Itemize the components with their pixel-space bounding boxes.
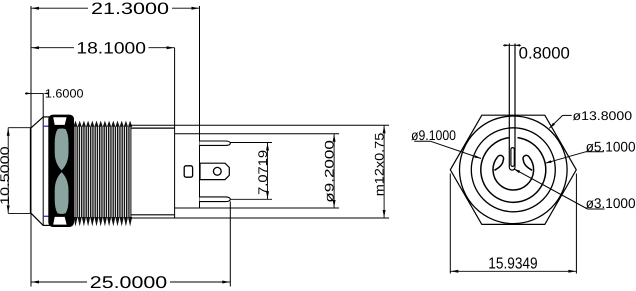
housing side slot [184,166,192,177]
svg-text:ø5.1000: ø5.1000 [586,138,636,154]
extension tick 10.5 bottom [8,212,30,214]
svg-text:ø13.8000: ø13.8000 [573,109,633,123]
rear housing top edge / dia9.2 extension [175,133,340,135]
dimension 7.0719 line [267,143,269,200]
dimension m12x0.75 line [383,125,385,218]
head flange front face edge [30,128,32,214]
power bar slot left line / 0.8 extension [508,44,510,168]
hex nut outline [450,115,576,224]
bezel cap outer black body [48,115,74,227]
cap bottom white notch [53,217,66,225]
dimension 25.0000 line [31,281,87,283]
leader dia9.1000 [414,140,431,142]
svg-text:0.8000: 0.8000 [519,45,570,63]
extension tick 10.5 top [8,127,30,129]
thread crest teeth top [73,121,132,127]
dimension 1.6000 line [25,92,43,94]
outer circle dia13.8 [460,116,568,224]
power symbol outer arc [481,138,546,203]
cap top white notch [53,117,66,125]
svg-text:10.5000: 10.5000 [0,146,12,205]
svg-text:21.3000: 21.3000 [91,0,169,18]
body top edge [131,127,175,129]
lens lower (teal) [55,172,69,214]
svg-text:25.0000: 25.0000 [90,273,167,291]
svg-text:7.0719: 7.0719 [256,150,270,195]
svg-text:ø3.1000: ø3.1000 [586,195,636,211]
dimension dia9.2000 line [333,134,335,208]
body bottom edge [131,214,175,216]
svg-text:15.9349: 15.9349 [488,255,537,272]
dimension 18.1000 line [31,47,74,49]
head chamfer top [31,117,43,128]
extension line 15.9349 right [575,174,577,274]
head chamfer bottom [31,213,43,225]
rear housing bottom edge / dia9.2 extension [175,207,340,209]
hidden line blue top [43,125,49,127]
thread shank lines [74,127,131,218]
svg-text:18.1000: 18.1000 [76,40,146,58]
svg-text:ø9.1000: ø9.1000 [411,127,456,143]
power symbol left end hook [494,155,503,170]
svg-text:m12x0.75: m12x0.75 [372,133,386,197]
flange bottom edge [43,224,49,226]
svg-text:ø9.2000: ø9.2000 [322,140,336,203]
terminal pin top [200,141,231,145]
svg-text:1.6000: 1.6000 [45,87,84,101]
middle circle dia9.1 [471,128,555,212]
thread major dia line top / m12 extension [131,124,389,126]
power symbol inner arc [493,157,534,190]
head flange rear edge [42,93,44,225]
extension line 7.0719 top [231,142,273,144]
thread crest teeth bottom [73,217,132,226]
leader dia13.8000 [549,115,562,128]
flange top edge [43,116,49,118]
leader dia3.1000 [514,169,588,209]
dimension 0.8000 line [503,44,521,46]
tab hole [213,167,221,175]
terminal pin bottom [200,197,231,202]
extension line: head front face plane (x=31) [30,6,32,287]
dimension 10.5000 line [7,128,9,214]
thread end boundary [130,125,132,218]
rear housing rear face / 21.3 extension line [199,6,201,208]
power bar inner outline [511,148,514,167]
extension line 25 right (pin tip) [229,202,231,287]
dimension 21.3000 line [31,7,88,9]
power symbol right end hook [523,155,532,170]
thread major dia line bottom / m12 extension [131,217,389,219]
hidden line blue bottom [43,215,49,217]
dimension 15.9349 line [450,270,576,272]
power bar slot right line / 0.8 extension [514,44,516,168]
lens upper (teal) [55,129,69,171]
power bar slot bottom cap [509,167,515,170]
leader dia5.1000 [545,152,586,164]
terminal tab middle with hole [200,163,229,179]
extension line 7.0719 bottom [231,198,273,200]
body step edge / 18.1 extension line [174,48,176,218]
extension line 15.9349 left [449,174,451,274]
